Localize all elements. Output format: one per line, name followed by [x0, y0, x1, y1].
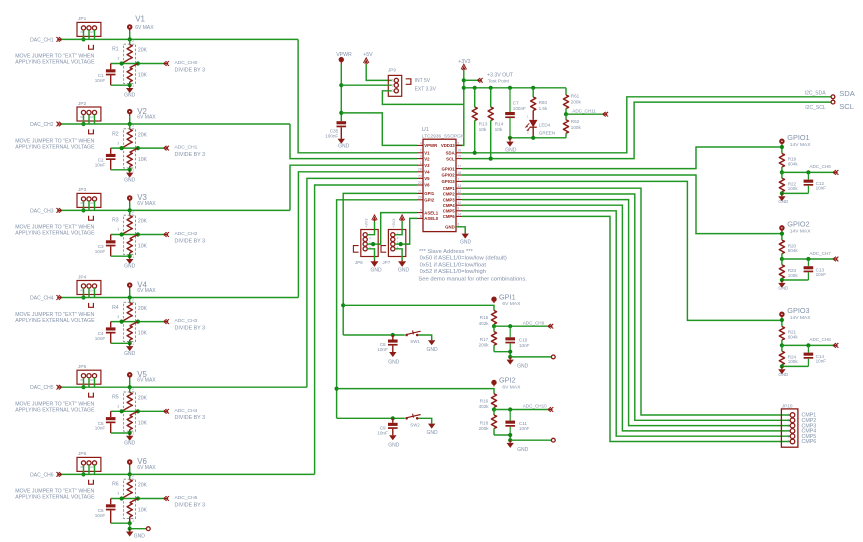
svg-text:10nF: 10nF [95, 162, 106, 167]
svg-text:R2: R2 [112, 131, 119, 137]
ground [129, 529, 131, 532]
resistor pack R3 outline [124, 215, 136, 254]
svg-text:100k: 100k [788, 186, 799, 191]
test point +3.3V OUT [464, 79, 478, 81]
pin SCL (15) [456, 158, 462, 160]
capacitor C7 100nF [509, 88, 511, 112]
wire [781, 318, 783, 326]
svg-text:GND: GND [388, 359, 400, 365]
node ADC_CH8 [782, 344, 833, 346]
wire [111, 169, 130, 171]
node ADC_CH0 [164, 61, 169, 66]
svg-text:1: 1 [392, 79, 394, 83]
ground [389, 435, 396, 440]
resistor R6 10K [130, 499, 138, 503]
node ADC_CH7 [782, 258, 833, 260]
wire [456, 227, 465, 233]
wire [395, 243, 410, 245]
svg-text:DIVIDE BY 3: DIVIDE BY 3 [175, 152, 206, 158]
svg-text:6V MAX: 6V MAX [137, 288, 156, 294]
svg-text:I2C_SDA: I2C_SDA [805, 90, 827, 96]
svg-text:14V MAX: 14V MAX [790, 142, 811, 148]
wire net V5 [62, 386, 307, 388]
svg-text:100k: 100k [788, 359, 799, 364]
svg-text:GREEN: GREEN [539, 131, 555, 136]
node ADC_CH3 [164, 319, 169, 324]
jumper position bracket [381, 246, 386, 253]
svg-text:3: 3 [788, 424, 790, 428]
junction [339, 111, 343, 115]
ground [401, 260, 403, 261]
wire [395, 249, 402, 261]
svg-text:2: 2 [392, 83, 394, 87]
power node GPIO1 [780, 139, 784, 143]
svg-text:ADC_CH3: ADC_CH3 [175, 318, 198, 324]
svg-text:10nF: 10nF [377, 347, 388, 352]
node ADC_CH10 [494, 409, 548, 411]
svg-text:ADC_CH2: ADC_CH2 [175, 231, 198, 237]
svg-text:GND: GND [778, 286, 788, 291]
svg-text:402k: 402k [479, 321, 490, 326]
svg-text:ASEL0: ASEL0 [424, 216, 438, 221]
resistor R5 10K [130, 411, 138, 415]
svg-text:8: 8 [420, 214, 422, 218]
junction [462, 78, 466, 82]
wire rail to GND [510, 137, 566, 139]
ground [509, 440, 511, 443]
capacitor C3 10nF [110, 235, 112, 241]
svg-text:10K: 10K [138, 73, 148, 79]
ground [129, 343, 131, 346]
svg-text:GND: GND [426, 430, 438, 436]
svg-text:DAC_CH4: DAC_CH4 [30, 295, 54, 301]
ground [389, 352, 396, 357]
resistor R21 604k [779, 327, 784, 341]
svg-text:APPLYING EXTERNAL VOLTAGE: APPLYING EXTERNAL VOLTAGE [15, 408, 95, 414]
wire [419, 418, 432, 423]
svg-text:DAC_CH6: DAC_CH6 [30, 472, 54, 478]
resistor R24 100k [779, 351, 784, 365]
junction [780, 343, 784, 347]
wire net GPIO3 [462, 181, 780, 320]
test point [510, 439, 551, 441]
wire JP9 pin3 to +3V3 [382, 91, 463, 105]
svg-text:JP10: JP10 [782, 404, 793, 409]
capacitor C4 10nF [110, 322, 112, 328]
ground [781, 280, 783, 283]
spare jumper symbol JP1 [89, 45, 94, 49]
ground [374, 260, 376, 261]
wire ADC_CH5 tap [111, 498, 164, 500]
svg-text:SCL: SCL [446, 156, 455, 161]
svg-text:10nF: 10nF [95, 513, 106, 518]
resistor R61 200k [565, 88, 567, 95]
resistor R16 402k [491, 394, 496, 408]
node ADC_CH11 [566, 113, 603, 115]
wire net GPI2 [337, 389, 494, 394]
ground [338, 139, 345, 144]
svg-text:2: 2 [132, 124, 134, 128]
svg-text:3: 3 [117, 492, 119, 496]
svg-text:GND: GND [460, 239, 472, 245]
wire net CMP2 [462, 194, 790, 420]
resistor R5 20K [129, 387, 131, 392]
wire net V3 [62, 209, 290, 211]
pin GPIO1 (17) [456, 168, 462, 170]
svg-text:JP1: JP1 [78, 16, 87, 22]
svg-text:18: 18 [457, 171, 461, 175]
resistor R15 402k [491, 311, 496, 325]
svg-text:DIVIDE BY 3: DIVIDE BY 3 [175, 325, 206, 331]
spare jumper symbol JP6 [89, 480, 94, 484]
svg-text:17: 17 [457, 165, 461, 169]
pin V1 (2) [417, 152, 423, 154]
svg-text:GND: GND [370, 267, 382, 273]
svg-text:10nF: 10nF [519, 343, 530, 348]
svg-text:GND: GND [124, 351, 136, 357]
wire net CMP6 [462, 216, 790, 441]
svg-text:6: 6 [788, 440, 790, 444]
svg-text:ASEL1: ASEL1 [424, 210, 438, 215]
svg-text:R61: R61 [571, 94, 580, 99]
capacitor C10 10nF [509, 326, 511, 337]
svg-text:R13: R13 [479, 121, 488, 127]
capacitor C8 10nF [392, 335, 394, 340]
power node V6 [128, 460, 132, 464]
svg-text:JP4: JP4 [78, 274, 87, 280]
capacitor C14 10nF [807, 345, 809, 352]
resistor R6 20K [129, 474, 131, 479]
svg-text:SCL: SCL [839, 102, 854, 111]
svg-text:U1: U1 [422, 127, 429, 133]
svg-text:JP2: JP2 [78, 101, 87, 107]
capacitor C2 10nF [110, 148, 112, 154]
wire net ASEL1 [378, 213, 417, 245]
resistor R3 20K [129, 210, 131, 215]
svg-text:20K: 20K [138, 48, 148, 54]
svg-text:6V MAX: 6V MAX [137, 201, 156, 207]
svg-text:JP3: JP3 [78, 187, 87, 193]
svg-text:12: 12 [457, 190, 461, 194]
svg-text:EXT 3.3V: EXT 3.3V [415, 87, 437, 93]
capacitor C9 10nF [392, 418, 394, 423]
svg-text:V1: V1 [424, 151, 430, 156]
spare jumper symbol JP4 [89, 303, 94, 307]
svg-text:2: 2 [132, 297, 134, 301]
svg-text:10K: 10K [138, 508, 148, 514]
pin V6 (22) [417, 184, 423, 186]
resistor pack R5 outline [124, 392, 136, 431]
wire [781, 145, 783, 153]
wire [494, 435, 510, 440]
power node GPIO2 [780, 226, 784, 230]
svg-text:V4: V4 [424, 170, 430, 175]
svg-text:DIVIDE BY 3: DIVIDE BY 3 [175, 238, 206, 244]
LED LED4 GREEN [532, 111, 534, 120]
junction ADC_CH11 [564, 112, 568, 116]
wire [395, 221, 402, 234]
power node V5 [128, 373, 132, 377]
svg-text:R16: R16 [480, 399, 489, 404]
ground [428, 424, 435, 429]
svg-text:3: 3 [117, 57, 119, 61]
svg-text:CMP6: CMP6 [802, 439, 817, 445]
wire +3V3 to VDD33 [456, 71, 464, 146]
junction [492, 324, 496, 328]
pin CMP3 (11) [456, 199, 462, 201]
svg-text:DIVIDE BY 3: DIVIDE BY 3 [175, 415, 206, 421]
svg-text:R1: R1 [112, 47, 119, 53]
svg-text:VPWR: VPWR [424, 143, 438, 148]
wire net V6 [62, 473, 315, 475]
svg-text:6V MAX: 6V MAX [137, 465, 156, 471]
pin V3 (1) [417, 164, 423, 166]
wire [83, 378, 85, 387]
svg-text:1.5k: 1.5k [539, 106, 548, 111]
svg-text:CMP1: CMP1 [443, 186, 456, 191]
svg-text:SDA: SDA [446, 151, 455, 156]
junction [339, 83, 343, 87]
svg-text:V5: V5 [424, 176, 430, 181]
svg-text:ADC_CH4: ADC_CH4 [175, 408, 198, 414]
wire [782, 192, 809, 194]
svg-text:10K: 10K [138, 420, 148, 426]
node I2C_SCL [831, 100, 835, 104]
svg-text:SW2: SW2 [410, 423, 420, 428]
resistor pack R4 outline [124, 302, 136, 341]
svg-text:V6: V6 [424, 183, 430, 188]
wire [83, 288, 85, 297]
pin VDD33 (5) [456, 144, 462, 146]
svg-text:10nF: 10nF [95, 249, 106, 254]
svg-text:2: 2 [132, 210, 134, 214]
wire net I2C_SCL [462, 102, 831, 159]
svg-text:1: 1 [132, 255, 134, 259]
wire net GPI2 [337, 200, 417, 418]
node ADC_CH5 [164, 496, 169, 501]
svg-text:604k: 604k [788, 161, 799, 166]
svg-text:20: 20 [418, 196, 422, 200]
svg-text:R3: R3 [112, 218, 119, 224]
svg-text:ADC_CH11: ADC_CH11 [572, 109, 596, 114]
svg-text:C10: C10 [519, 338, 528, 343]
power node V4 [128, 283, 132, 287]
svg-text:21: 21 [418, 189, 422, 193]
svg-text:6V MAX: 6V MAX [135, 25, 154, 31]
svg-text:R15: R15 [480, 315, 489, 320]
svg-text:3: 3 [420, 155, 422, 159]
svg-text:R60: R60 [539, 100, 548, 105]
resistor R3 10K [130, 235, 138, 239]
svg-text:10K: 10K [138, 331, 148, 337]
wire [111, 342, 130, 344]
resistor R2 20K [129, 124, 131, 129]
svg-text:100nF: 100nF [325, 133, 338, 138]
wire [129, 523, 131, 529]
svg-text:ADC_CH7: ADC_CH7 [809, 251, 831, 256]
wire net GPIO2 [462, 175, 780, 234]
svg-text:100k: 100k [788, 273, 799, 278]
svg-text:C7: C7 [513, 101, 519, 106]
wire net CMP5 [462, 211, 790, 436]
wire ADC_CH1 tap [111, 147, 164, 149]
svg-text:I2C_SCL: I2C_SCL [805, 105, 826, 111]
svg-text:GND: GND [778, 372, 788, 377]
svg-text:20K: 20K [138, 132, 148, 138]
junction V4 [128, 295, 132, 299]
pin CMP4 (10) [456, 204, 462, 206]
svg-text:22: 22 [418, 181, 422, 185]
svg-text:20K: 20K [138, 483, 148, 489]
pin CMP6 (14) [456, 215, 462, 217]
svg-text:ADC_CH5: ADC_CH5 [175, 495, 198, 501]
node ADC_CH1 [164, 146, 169, 151]
wire [83, 465, 85, 474]
svg-text:R14: R14 [495, 121, 504, 127]
svg-text:GPI2: GPI2 [424, 198, 434, 203]
svg-text:0x52 if ASEL1/0=low/high: 0x52 if ASEL1/0=low/high [420, 269, 486, 275]
svg-text:CMP5: CMP5 [443, 209, 456, 214]
pin V4 (28) [417, 171, 423, 173]
resistor R4 10K [130, 322, 138, 326]
svg-text:3: 3 [117, 405, 119, 409]
junction V6 [128, 472, 132, 476]
wire [111, 522, 130, 524]
capacitor C6 10nF [110, 499, 112, 505]
svg-text:14: 14 [457, 212, 461, 216]
svg-text:VPWR: VPWR [336, 52, 352, 58]
svg-text:4: 4 [420, 141, 422, 145]
svg-text:10K: 10K [138, 157, 148, 163]
svg-text:13: 13 [457, 184, 461, 188]
svg-text:6V MAX: 6V MAX [137, 114, 156, 120]
svg-text:GND: GND [445, 225, 455, 230]
svg-text:ADC_CH8: ADC_CH8 [809, 337, 831, 342]
svg-text:4: 4 [788, 429, 790, 433]
svg-text:DAC_CH2: DAC_CH2 [30, 122, 54, 128]
junction V1 [128, 37, 132, 41]
svg-text:5: 5 [788, 434, 790, 438]
svg-text:100nF: 100nF [513, 106, 526, 111]
svg-text:5: 5 [457, 141, 459, 145]
resistor R20 604k [779, 240, 784, 254]
svg-text:GND: GND [338, 144, 350, 150]
svg-text:15: 15 [457, 155, 461, 159]
svg-text:GND: GND [124, 441, 136, 447]
svg-text:1: 1 [132, 169, 134, 173]
pin CMP1 (13) [456, 187, 462, 189]
ground [428, 340, 435, 345]
wire net V1 [62, 38, 298, 40]
pin V5 (23) [417, 177, 423, 179]
svg-text:2: 2 [420, 149, 422, 153]
svg-text:R4: R4 [112, 305, 119, 311]
jumper position bracket [353, 246, 358, 253]
capacitor C12 10nF [807, 172, 809, 179]
svg-text:GPI2: GPI2 [499, 376, 516, 385]
ground [129, 170, 131, 173]
svg-text:0x50 if ASEL1/0=low/low (defau: 0x50 if ASEL1/0=low/low (default) [420, 256, 507, 262]
junction [508, 438, 512, 442]
svg-text:3: 3 [117, 228, 119, 232]
pin CMP5 (8) [456, 210, 462, 212]
ground [509, 357, 511, 360]
pin GND (6) [456, 226, 462, 228]
node ADC_CH9 [494, 325, 548, 327]
svg-text:20K: 20K [138, 306, 148, 312]
resistor R1 20K [129, 39, 131, 44]
node ADC_CH4 [164, 409, 169, 414]
wire ADC_CH3 tap [111, 321, 164, 323]
resistor R62 100k [565, 114, 567, 120]
svg-text:GND: GND [124, 264, 136, 270]
wire ADC_CH0 tap [111, 63, 164, 65]
junction [462, 86, 466, 90]
junction [780, 257, 784, 261]
svg-text:10nF: 10nF [95, 426, 106, 431]
pin ASEL0 (8) [417, 217, 423, 219]
svg-text:JP7: JP7 [382, 260, 390, 265]
svg-text:GPIO2: GPIO2 [787, 220, 809, 229]
ground [129, 433, 131, 436]
wire net ASEL0 [406, 218, 417, 244]
svg-text:1: 1 [132, 432, 134, 436]
resistor R60 1.5k [532, 88, 534, 97]
wire [111, 432, 130, 434]
resistor R19 604k [779, 154, 784, 168]
svg-text:CMP2: CMP2 [443, 192, 456, 197]
svg-text:100k: 100k [571, 125, 582, 130]
wire net V2 [62, 123, 290, 125]
capacitor C5 10nF [110, 411, 112, 417]
svg-text:JP8: JP8 [355, 260, 363, 265]
svg-text:DIVIDE BY 3: DIVIDE BY 3 [175, 67, 206, 73]
svg-text:23: 23 [418, 174, 422, 178]
switch SW2 [405, 417, 408, 420]
wire [494, 352, 510, 357]
svg-text:10nF: 10nF [816, 186, 827, 191]
svg-text:2: 2 [788, 419, 790, 423]
svg-text:2: 2 [132, 474, 134, 478]
ground [781, 193, 783, 196]
svg-text:APPLYING EXTERNAL VOLTAGE: APPLYING EXTERNAL VOLTAGE [15, 495, 95, 501]
svg-text:DAC_CH1: DAC_CH1 [30, 37, 54, 43]
svg-text:V2: V2 [424, 156, 430, 161]
svg-text:ADC_CH1: ADC_CH1 [175, 145, 198, 151]
node I2C_SDA [831, 95, 835, 99]
svg-text:LED4: LED4 [539, 123, 551, 128]
wire [367, 243, 381, 245]
power node GPIO3 [780, 312, 784, 316]
svg-text:V3: V3 [424, 163, 430, 168]
svg-text:SW1: SW1 [410, 339, 420, 344]
svg-text:2: 2 [132, 387, 134, 391]
wire ADC_CH2 tap [111, 234, 164, 236]
power node V1 [128, 25, 132, 29]
resistor R13 10k [474, 88, 476, 107]
svg-text:1: 1 [132, 84, 134, 88]
svg-text:0x51 if ASEL1/0=low/float: 0x51 if ASEL1/0=low/float [420, 262, 487, 268]
svg-text:SDA: SDA [839, 89, 856, 98]
wire net GPI1 [343, 305, 494, 310]
svg-text:CMP4: CMP4 [443, 203, 456, 208]
svg-text:GND: GND [388, 443, 400, 449]
svg-text:R6: R6 [112, 482, 119, 488]
wire [343, 334, 405, 336]
wire [83, 30, 85, 39]
wire net CMP4 [462, 205, 790, 431]
pin GPI1 (21) [417, 192, 423, 194]
